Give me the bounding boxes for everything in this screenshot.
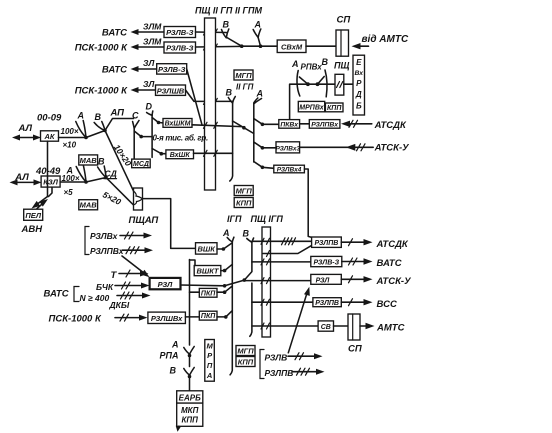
relay ПКВх [279, 120, 310, 129]
junction panel СП (top) [336, 15, 350, 57]
svg-text:МКП: МКП [181, 406, 199, 415]
svg-text:В: В [98, 157, 105, 167]
svg-text:МРПВх: МРПВх [299, 105, 324, 112]
svg-text:АЛ: АЛ [18, 123, 33, 134]
wire КЗЛ to fork А with 100x5 [60, 174, 86, 197]
svg-text:РПА: РПА [160, 351, 179, 361]
svg-text:ВСС: ВСС [377, 299, 397, 310]
svg-text:ПСК-1000 К: ПСК-1000 К [75, 43, 128, 54]
wire РПВх output line [290, 84, 335, 119]
svg-text:АМТС: АМТС [376, 323, 405, 334]
contact А to ВШКТ [221, 264, 233, 272]
node АЛ (upper) [18, 123, 33, 134]
svg-text:КПП: КПП [238, 358, 254, 367]
svg-text:ВАТС: ВАТС [44, 289, 69, 300]
node ВАТС (ЗЛМ outgoing) [102, 28, 127, 39]
register МСД [132, 159, 151, 168]
wire row1 to panel [196, 29, 227, 35]
label 40-49 [35, 166, 73, 178]
relay РЗЛВ-З (row 1) [164, 27, 196, 38]
node РЗЛПВх incoming [90, 246, 153, 256]
node ПСК-1000 К (ЗЛМ outgoing) [75, 43, 128, 54]
svg-text:МГП: МГП [237, 347, 254, 356]
svg-text:ПКП: ПКП [201, 313, 216, 320]
svg-text:ВАТС: ВАТС [102, 65, 127, 76]
svg-text:РЗЛПВх: РЗЛПВх [90, 246, 125, 256]
subscriber set АК [41, 131, 59, 141]
svg-text:В: В [170, 366, 177, 376]
contact В to А (ІІ ГП) [233, 121, 254, 134]
wire ЗЛМ arrow to ВАТС [131, 22, 165, 36]
svg-text:00-09: 00-09 [37, 113, 62, 124]
wire row ВСС out across panel [252, 299, 313, 305]
wire row2 across to СВхМ [242, 45, 278, 47]
svg-text:РЗЛШВ: РЗЛШВ [157, 86, 185, 95]
svg-text:АТСК-У: АТСК-У [374, 143, 411, 154]
svg-text:АТСДК: АТСДК [376, 239, 409, 250]
subscriber set КЗЛ [41, 176, 60, 187]
register МРПА [205, 340, 215, 382]
wire РЗЛПВх diagonal arrow to РЗЛ [122, 256, 150, 277]
svg-text:Вх: Вх [354, 70, 364, 77]
contact А to ВШК [217, 243, 232, 251]
wire АЛ to КЗЛ bothway arrow [10, 179, 42, 185]
svg-text:РЗЛ: РЗЛ [158, 280, 174, 289]
wire row ВАТС out across panel [252, 259, 311, 265]
selector А (ІІ ГП) [254, 89, 263, 163]
wire РЗЛШВх to ПКП [185, 316, 199, 318]
svg-text:В: В [322, 57, 329, 67]
svg-text:ДКБІ: ДКБІ [109, 300, 130, 310]
svg-text:ІІ ГПМ: ІІ ГПМ [235, 6, 262, 16]
register КПП (upper) [325, 103, 343, 112]
svg-text:БЧК: БЧК [96, 282, 114, 292]
svg-text:ПСК-1000 К: ПСК-1000 К [49, 313, 102, 324]
svg-text:А: А [206, 371, 212, 380]
svg-text:А: А [222, 228, 230, 238]
label СД underlined [104, 169, 117, 179]
junction panel СП (bottom) [348, 314, 362, 355]
contact А to РЗЛВх3 [254, 142, 276, 150]
svg-text:РЗЛВ-З: РЗЛВ-З [166, 44, 194, 53]
wire РЗЛВх4 down to РЗЛПВ [304, 169, 311, 237]
node від АМТС [352, 34, 409, 49]
svg-text:ЕАРБ: ЕАРБ [179, 394, 201, 403]
svg-text:РЗЛВх3: РЗЛВх3 [276, 145, 301, 152]
fork А (4-group) [76, 166, 88, 184]
svg-text:ЗЛ: ЗЛ [143, 79, 154, 89]
node ДКБІ incoming [109, 292, 151, 310]
bracket РЗЛВ РЗЛПВ outgoing [260, 350, 264, 379]
relay РЗЛШВх [148, 312, 186, 323]
node РЗЛВ outgoing [265, 353, 323, 363]
svg-text:ІГП: ІГП [227, 214, 242, 224]
selector МГП ІІ ГП label [234, 70, 254, 92]
node ПСК-1000 К (ЗЛ outgoing) [75, 86, 128, 97]
svg-text:МГП: МГП [235, 71, 252, 80]
cord circuit ВхШК [166, 150, 194, 159]
relay РЗЛПВ (АТСДК) [312, 237, 342, 247]
svg-text:ЗЛ: ЗЛ [143, 58, 154, 68]
node Т incoming [111, 270, 149, 281]
relay РЗЛШВ [156, 85, 186, 95]
svg-text:А: А [254, 20, 262, 30]
svg-text:РПВх: РПВх [301, 63, 323, 72]
relay РЗЛВх3 [276, 142, 301, 153]
selector В (ІІ ГПМ) [222, 20, 244, 49]
svg-text:ВАТС: ВАТС [377, 258, 402, 269]
svg-text:100×: 100× [61, 127, 79, 136]
svg-text:В: В [223, 20, 230, 30]
svg-text:ПЕЛ: ПЕЛ [25, 211, 41, 220]
selector В (ІІ ГП) [226, 88, 236, 182]
svg-text:ПКП: ПКП [201, 290, 216, 297]
wire ЗЛ arrow to ВАТС [131, 58, 157, 72]
wire step А to В [86, 131, 105, 138]
svg-text:ПЩ ІГП: ПЩ ІГП [251, 214, 284, 224]
label ІГП [227, 214, 242, 224]
svg-text:ВхШК: ВхШК [170, 152, 191, 159]
svg-text:ІІ ГП: ІІ ГП [236, 83, 254, 92]
svg-text:ВАТС: ВАТС [102, 28, 127, 39]
svg-text:ПЩ ІІ ГП: ПЩ ІІ ГП [195, 6, 233, 16]
label ІІ ГПМ [235, 6, 262, 16]
svg-text:РЗЛВ-З: РЗЛВ-З [166, 28, 194, 37]
relay СВ [318, 321, 348, 331]
svg-text:КПП: КПП [236, 199, 252, 208]
relay ПКП (lower) [199, 311, 217, 320]
svg-text:ВхШКМ: ВхШКМ [165, 121, 191, 128]
wire row 2nd into РЗЛПВ [263, 246, 311, 257]
wire row АТСК-У out across panel [244, 278, 310, 284]
svg-text:РЗЛПВ: РЗЛПВ [265, 368, 294, 378]
svg-text:СП: СП [348, 344, 362, 355]
contact А to ПКП upper [217, 286, 232, 294]
wire СВхМ to СП [306, 45, 336, 47]
svg-text:РЗЛПВ: РЗЛПВ [315, 300, 339, 307]
svg-text:від АМТС: від АМТС [362, 34, 409, 45]
contact D to ВхШКМ [152, 118, 163, 125]
wire arrow to АМТС [360, 323, 405, 334]
svg-text:ПСК-1000 К: ПСК-1000 К [75, 86, 128, 97]
selector А (ІІ ГПМ) [253, 20, 262, 49]
fork А (0-group) [76, 111, 88, 140]
register МАВ (lower) [79, 200, 98, 210]
svg-text:Т: Т [111, 270, 118, 281]
contact А to ПКВх [254, 119, 279, 127]
wire В up to АП row [105, 108, 134, 131]
fork А (РПА) [171, 340, 194, 358]
svg-text:РЗЛПВх: РЗЛПВх [311, 121, 339, 128]
svg-text:×10: ×10 [63, 141, 77, 150]
selector МГП КПП (І ГП mid) [234, 186, 253, 208]
wire 10x20 diagonal to ПЩАП [105, 131, 134, 192]
svg-text:А: А [291, 59, 299, 69]
relay РЗЛ (thick box) [150, 278, 181, 289]
svg-text:РЗЛВ-З: РЗЛВ-З [314, 260, 340, 267]
svg-text:ПЩ: ПЩ [334, 61, 349, 71]
svg-text:ПЩАП: ПЩАП [129, 215, 159, 226]
wire ВхШК row across panel [194, 150, 233, 156]
svg-text:РЗЛПВ: РЗЛПВ [314, 240, 338, 247]
node ВАТС (ЗЛ outgoing) [102, 65, 127, 76]
wire arrow to АТСДК [341, 239, 409, 250]
svg-text:П: П [207, 361, 213, 370]
svg-text:РЗЛВ-З: РЗЛВ-З [158, 65, 186, 74]
fork В (0-group) [94, 112, 107, 132]
label ПЩ ІІ ГП [195, 6, 233, 16]
wire step А to В (4-group) [86, 178, 106, 183]
wire АЛ to АК bothway arrow [12, 135, 41, 141]
bus left of ВШКТ [190, 260, 200, 346]
wire row2 to panel and across to СВхМ [196, 44, 242, 50]
wire from АТСДК incoming [341, 120, 407, 131]
wire row АМТС out across panel [252, 323, 318, 329]
wire 5x20 diagonal to ПЩАП [101, 178, 133, 208]
wire arrow to АТСК-У [341, 276, 412, 287]
label ПЩ ІГП [251, 214, 284, 224]
svg-text:ПКВх: ПКВх [280, 121, 299, 128]
svg-text:АТСДК: АТСДК [374, 120, 407, 131]
relay РЗЛВ-З (ВАТС) [311, 256, 342, 266]
register МКП КПП [177, 403, 203, 426]
wire diagonal row3 down to ВхШКМ multiple row [187, 69, 202, 125]
svg-text:В: В [226, 88, 233, 98]
wire АК to fork А with 100x10 [59, 127, 87, 150]
fork В (4-group) [98, 157, 108, 180]
svg-text:ВШКТ: ВШКТ [196, 267, 219, 276]
fork В (РПА) [170, 366, 195, 379]
svg-text:МСД: МСД [133, 161, 149, 168]
svg-text:100×: 100× [62, 174, 80, 183]
svg-text:А: А [171, 340, 179, 350]
svg-text:МГП: МГП [236, 187, 253, 196]
wire arrow down from МКП [176, 426, 181, 432]
relay РЗЛ (АТСК-У) [311, 274, 342, 284]
relay ПКП (upper) [199, 288, 217, 297]
жгут РПВх А-В [291, 57, 329, 97]
junction box ПЩ (small) [334, 61, 353, 96]
svg-text:РЗЛ: РЗЛ [316, 277, 330, 284]
register МАВ (upper) [79, 155, 98, 165]
label РПА [160, 351, 179, 361]
svg-text:А: А [77, 111, 85, 121]
label 0-я тис. аб. гр. [153, 134, 208, 143]
panel ПЩАП [129, 188, 159, 226]
wire arrow to ВСС [341, 299, 397, 310]
wire from АТСК-У incoming [300, 143, 411, 154]
fork С [132, 111, 139, 160]
relay РЗЛВ-З (row 2) [164, 42, 196, 53]
svg-text:D: D [146, 102, 153, 112]
svg-text:В: В [243, 228, 250, 238]
cord circuit ВШКТ [194, 266, 221, 276]
node РЗЛПВ outgoing [265, 368, 325, 378]
node БЧК incoming [96, 282, 150, 292]
label АВН [21, 224, 44, 235]
register ЕВхРДБ [353, 55, 365, 115]
svg-text:СВ: СВ [321, 324, 331, 331]
cord circuit ВШК [196, 243, 218, 254]
register МРПВх [298, 101, 325, 111]
svg-text:МАВ: МАВ [80, 201, 98, 210]
node РЗЛВх incoming [90, 231, 152, 241]
contact D to ВхШК [152, 149, 166, 156]
svg-text:КПП: КПП [181, 416, 198, 425]
wire ЗЛ arrow to ПСК-1000 К [131, 79, 156, 93]
svg-text:РЗЛВх4: РЗЛВх4 [277, 166, 302, 173]
contact С to D bus [134, 131, 152, 138]
wire ВхШКМ row across panel [192, 122, 242, 128]
node АЛ (lower) [14, 172, 29, 183]
selector МГП КПП (bottom) [236, 346, 255, 367]
register СВхМ [277, 40, 306, 53]
label 00-09 [37, 113, 62, 124]
cord circuit ВхШКМ [163, 119, 192, 128]
svg-text:МАВ: МАВ [80, 156, 98, 165]
selector В (І ГП) [243, 228, 254, 336]
svg-text:ЗЛМ: ЗЛМ [143, 22, 162, 32]
svg-text:В: В [95, 112, 102, 122]
relay РЗЛВ-З (row 3) [157, 64, 187, 74]
wire diagonal РЗЛШВ down to row 101 [186, 90, 233, 104]
svg-text:АТСК-У: АТСК-У [376, 276, 413, 287]
register ЕАРБ [177, 391, 203, 403]
svg-text:×5: ×5 [64, 188, 74, 197]
svg-text:N ≥ 400: N ≥ 400 [80, 293, 110, 303]
svg-text:ВШК: ВШК [198, 245, 217, 254]
svg-text:Е: Е [356, 58, 362, 67]
relay РЗЛПВ (ВСС) [313, 298, 341, 307]
svg-text:Д: Д [355, 90, 362, 99]
svg-text:РЗЛВх: РЗЛВх [90, 231, 119, 241]
test set ПЕЛ [24, 209, 43, 220]
svg-text:СП: СП [337, 15, 351, 26]
svg-text:ЗЛМ: ЗЛМ [143, 37, 162, 47]
svg-text:РЗЛВ: РЗЛВ [265, 353, 288, 363]
selector А (І ГП) [222, 228, 234, 375]
node ВАТС N>=400 [44, 287, 110, 304]
svg-text:М: М [206, 342, 213, 351]
svg-text:КЗЛ: КЗЛ [43, 178, 58, 187]
wire ПЩАП output to ВШК [143, 199, 196, 249]
wire diagonal arrow РЗЛВ to РЗЛ [288, 287, 310, 353]
wire arrow to ВАТС [342, 258, 402, 269]
svg-text:Р: Р [356, 79, 362, 88]
fork D [146, 102, 153, 158]
wire РПА bus to ЕАРБ [189, 356, 191, 391]
node ПСК-1000 К incoming [49, 313, 148, 324]
wire РЗЛ to В bus contact [181, 280, 245, 288]
label ПЩАП incoming group bracket [85, 227, 89, 255]
svg-text:Б: Б [356, 102, 362, 111]
svg-text:АК: АК [43, 132, 55, 141]
svg-text:10×20: 10×20 [112, 143, 134, 169]
relay РЗЛВх4 [274, 165, 305, 173]
svg-text:СВхМ: СВхМ [281, 43, 303, 52]
svg-text:0-я тис. аб. гр.: 0-я тис. аб. гр. [153, 134, 208, 143]
svg-text:АП: АП [110, 108, 125, 119]
cross-connect panel ПЩ І ГП [262, 227, 271, 337]
svg-text:РЗЛШВх: РЗЛШВх [151, 314, 183, 323]
cross-connect panel ПЩ ІІ ГП [205, 18, 216, 190]
contact А to РЗЛВх4 [254, 162, 274, 170]
relay РЗЛПВх [309, 120, 340, 129]
wire ЗЛМ arrow to ПСК-1000 К [131, 37, 165, 51]
svg-text:АВН: АВН [21, 224, 44, 235]
svg-text:С: С [132, 111, 139, 121]
contact А to ПКП lower [217, 311, 232, 319]
svg-text:А: А [256, 89, 264, 99]
wire АК КЗЛ down to ПЕЛ [32, 141, 53, 208]
svg-text:КПП: КПП [327, 105, 342, 112]
wire row АТСДК out across panel [252, 238, 312, 245]
